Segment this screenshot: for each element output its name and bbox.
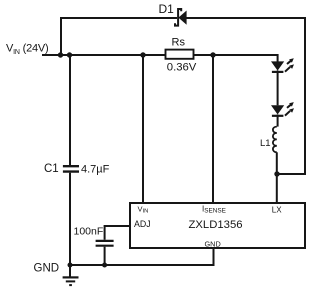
ground symbol [69,265,71,277]
inductor L1 [273,127,277,153]
LED bottom [271,102,294,116]
wire: ADJ pin to 100nF [105,226,130,240]
svg-text:LX: LX [272,205,282,214]
svg-text:C1: C1 [44,163,59,175]
node: VIN junction dot (C1 branch) [67,52,72,57]
wire: VIN rail left segment [42,54,166,56]
node: LX / D1 return junction [274,171,279,176]
svg-text:100nF: 100nF [74,226,104,238]
LED top [271,58,294,72]
capacitor 100nF [96,240,114,242]
wire: C1 top branch [69,55,71,165]
svg-text:4.7µF: 4.7µF [81,164,110,176]
wire: ISENSE pin drop [212,55,214,203]
svg-text:Rs: Rs [172,37,186,49]
svg-text:D1: D1 [159,2,175,16]
capacitor C1 [63,165,79,167]
wire: VIN pin drop [142,55,144,203]
node: Rs right junction [210,52,215,57]
node: Rs left junction [140,52,145,57]
node: 100nF bottom junction [102,263,107,268]
wire: C1 bottom branch [69,173,71,265]
wire: LED2 to L1 [277,115,279,127]
svg-text:L1: L1 [260,138,271,149]
wire: 100nF bottom [104,247,106,265]
svg-text:VIN (24V): VIN (24V) [6,43,49,56]
wire: VIN node up and top rail to D1 cathode [61,18,177,55]
wire: L1 to LX node to LX pin [276,152,278,203]
node: GND junction [68,263,73,268]
svg-text:ADJ: ADJ [134,219,151,229]
wire: D1 anode return loop down to LX node [186,18,305,174]
wire: between LEDs [277,71,279,106]
wire: VIN rail right segment to LED branch [194,55,278,62]
IC U1 ZXLD1356 body [130,203,305,248]
svg-text:0.36V: 0.36V [167,62,197,74]
svg-text:GND: GND [205,240,221,249]
svg-text:ZXLD1356: ZXLD1356 [189,219,243,231]
svg-text:GND: GND [34,263,60,275]
wire: ground rail [70,248,214,265]
resistor Rs [166,50,194,59]
node: VIN junction dot (up branch) [58,52,63,57]
diode D1 (Schottky) [175,9,187,26]
